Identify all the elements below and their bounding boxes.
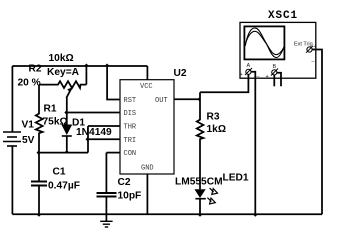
wire wiper down to DIS/D1 xyxy=(65,98,68,125)
svg-text:20 %: 20 % xyxy=(18,78,41,89)
svg-text:VCC: VCC xyxy=(140,83,153,91)
LED1 xyxy=(195,188,218,214)
wire DIS xyxy=(67,112,120,114)
resistor R3 xyxy=(197,92,204,189)
svg-text:R1: R1 xyxy=(44,104,57,115)
svg-text:+: + xyxy=(266,74,269,80)
wire THR xyxy=(88,125,120,127)
oscilloscope XSC1 box xyxy=(240,22,316,78)
svg-text:Key=A: Key=A xyxy=(47,67,80,78)
scope trace B xyxy=(245,31,284,54)
wire top VCC rail xyxy=(12,65,147,67)
node junction LED-rail xyxy=(198,214,203,217)
wire A+ to OUT node xyxy=(200,75,248,93)
ground symbol xyxy=(100,214,112,227)
svg-text:LED1: LED1 xyxy=(223,173,249,184)
svg-text:CON: CON xyxy=(124,150,137,158)
node junction wiper-DIS xyxy=(64,110,67,115)
LED arrows xyxy=(210,188,214,192)
capacitor C2 xyxy=(97,153,117,215)
wire bottom ground rail xyxy=(12,213,322,215)
resistor R1 xyxy=(36,85,43,153)
svg-text:C1: C1 xyxy=(53,167,66,178)
svg-text:RST: RST xyxy=(124,97,137,105)
node junction R1-C1-main xyxy=(37,150,40,155)
svg-text:DIS: DIS xyxy=(124,110,137,118)
svg-text:10kΩ: 10kΩ xyxy=(49,53,74,64)
svg-text:OUT: OUT xyxy=(155,97,168,105)
wire A- to rail xyxy=(251,72,255,214)
wire TRI xyxy=(88,138,120,140)
terminal B xyxy=(266,69,289,81)
svg-text:R3: R3 xyxy=(207,112,220,123)
wire main node horizontal xyxy=(39,152,88,154)
node junction OUT-R3 xyxy=(198,97,201,102)
scope screen xyxy=(244,26,284,59)
battery V1 xyxy=(3,132,21,146)
node junction C1-rail xyxy=(37,214,42,217)
wire OUT xyxy=(174,98,200,100)
svg-text:TRI: TRI xyxy=(124,137,137,145)
svg-text:1N4149: 1N4149 xyxy=(76,127,112,138)
node junction pot-top xyxy=(84,64,89,67)
potentiometer R2 zigzag xyxy=(39,81,86,88)
node junction RST-top xyxy=(105,64,110,67)
terminal ExtTrig xyxy=(306,44,317,63)
wire RST route xyxy=(107,66,120,100)
svg-text:A: A xyxy=(247,63,251,69)
node junction TRI xyxy=(86,137,89,142)
wire ExtTrig down xyxy=(312,50,322,215)
wire pot right lead up xyxy=(85,66,87,85)
svg-text:1kΩ: 1kΩ xyxy=(207,124,227,135)
scope trace A xyxy=(245,28,284,58)
svg-text:R2: R2 xyxy=(29,64,42,75)
op-amp U2 555 timer body xyxy=(120,80,174,174)
svg-text:THR: THR xyxy=(124,124,137,132)
capacitor C1 xyxy=(31,153,47,215)
svg-text:+: + xyxy=(240,72,243,78)
wire left rail (battery branch) xyxy=(11,66,13,132)
svg-text:B: B xyxy=(273,64,277,70)
svg-text:10pF: 10pF xyxy=(118,191,142,202)
svg-text:C2: C2 xyxy=(118,177,131,188)
wire B+ stub xyxy=(273,75,275,86)
svg-text:0.47µF: 0.47µF xyxy=(48,181,80,192)
wire B- stub xyxy=(277,73,281,87)
wire GND stub xyxy=(146,174,148,214)
svg-text:LM555CM: LM555CM xyxy=(175,177,223,188)
potentiometer wiper arrow xyxy=(66,88,71,98)
wire VCC stub xyxy=(146,66,148,80)
svg-text:XSC1: XSC1 xyxy=(268,10,298,22)
diode D1 xyxy=(62,125,72,153)
svg-text:GND: GND xyxy=(141,165,154,173)
svg-text:5V: 5V xyxy=(22,135,35,146)
wire CON xyxy=(106,152,120,154)
wire THR/TRI vertical xyxy=(87,126,89,153)
node junction A- rail xyxy=(253,214,258,217)
node junction D1-main xyxy=(64,150,69,153)
svg-text:U2: U2 xyxy=(174,68,187,79)
terminal A xyxy=(240,68,261,78)
svg-text:V1: V1 xyxy=(22,120,35,131)
